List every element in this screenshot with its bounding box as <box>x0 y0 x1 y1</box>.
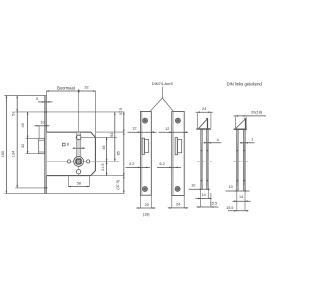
view1 dim 24 line <box>196 111 213 113</box>
ext line case right edge up <box>95 91 97 137</box>
svg-text:58: 58 <box>77 182 81 186</box>
plate2 dim 12 line <box>159 131 189 133</box>
dim 134-53 line <box>16 96 18 188</box>
ext line plate bottom long <box>4 192 124 194</box>
svg-text:DIN74-AmS: DIN74-AmS <box>152 81 174 86</box>
label square 8 <box>62 143 65 146</box>
svg-text:94: 94 <box>110 133 114 137</box>
view1 centerline <box>197 160 212 162</box>
svg-text:14: 14 <box>201 193 205 197</box>
ext line latch top <box>26 137 39 139</box>
svg-text:DIN links getekend: DIN links getekend <box>227 82 263 87</box>
ext line latch left up <box>38 126 40 139</box>
ext line latch bottom <box>26 153 45 155</box>
follower slot <box>76 132 80 157</box>
view1 dim 4 line <box>204 142 222 144</box>
plate2 top screw <box>175 118 180 123</box>
view1 top strike lip <box>196 128 211 130</box>
ext line case top right <box>96 131 125 133</box>
svg-text:12: 12 <box>165 127 169 131</box>
svg-text:49: 49 <box>21 123 25 127</box>
svg-text:24: 24 <box>176 203 180 207</box>
view2 dim 20 line <box>234 115 266 117</box>
dim 58 line <box>68 186 89 188</box>
svg-text:12: 12 <box>132 127 136 131</box>
ext line case bottom right <box>92 175 125 177</box>
plate2 latch bolt <box>178 140 182 153</box>
plate1 ext 20 right <box>150 195 152 208</box>
faceplate top screw line <box>44 111 47 113</box>
svg-text:10: 10 <box>191 183 195 187</box>
plate1 latch bolt <box>145 140 149 153</box>
plate2 left shade band <box>172 112 174 195</box>
svg-text:3.2: 3.2 <box>129 162 134 166</box>
svg-text:10: 10 <box>40 121 44 125</box>
top hole circle <box>77 135 81 139</box>
dim line Boormaat-32 <box>46 90 95 92</box>
view2 ext 20 left <box>234 117 236 129</box>
view1 ext 14 right <box>207 189 209 198</box>
plate2 ext 24 left <box>171 195 173 208</box>
leader to plate2 <box>162 98 173 111</box>
vertical centerline below follower <box>78 166 80 175</box>
lock case outline <box>47 132 96 176</box>
plate1 bottom screw <box>142 186 147 191</box>
plate2 latch slot <box>175 138 178 155</box>
view1 dim 10 line <box>189 188 210 190</box>
svg-text:53: 53 <box>11 111 15 115</box>
view1 dim 14 line <box>196 197 212 199</box>
ext line hole58 left <box>67 176 69 186</box>
plate1 dim 3.2 line <box>126 166 151 168</box>
view2 dim 1 line <box>240 142 255 144</box>
leader to plate1 <box>150 98 162 111</box>
view2 bolt strip dark mid <box>244 143 246 186</box>
wire centerline through follower <box>47 160 119 162</box>
svg-text:46: 46 <box>102 145 106 149</box>
plate1 left shade band <box>141 112 143 195</box>
dim 10 line <box>34 125 49 127</box>
plate2 ext 24 right <box>183 195 185 208</box>
svg-text:20: 20 <box>145 203 149 207</box>
view2 bolt strip <box>243 130 245 190</box>
plate1 dim 12 line <box>128 131 157 133</box>
view1 bolt strip <box>206 130 208 190</box>
ext line x46.4 <box>45 91 47 96</box>
view1 ext 15.5 left <box>200 198 202 207</box>
svg-text:32: 32 <box>21 144 25 148</box>
view1 latch bevel <box>199 119 208 129</box>
latch bolt side view <box>39 138 45 153</box>
svg-text:(37.5): (37.5) <box>116 179 120 190</box>
svg-text:Boormaat: Boormaat <box>57 85 76 90</box>
faceplate bottom screw line <box>44 187 47 189</box>
dim 37.5-85-37.5 chain line <box>123 112 125 193</box>
ext line top hole right <box>81 136 117 138</box>
bottom hole circle <box>76 170 80 174</box>
svg-text:160: 160 <box>1 151 5 157</box>
plate2 bottom screw <box>175 186 180 191</box>
dim 94 line <box>114 112 116 161</box>
view1 dim 15.5 line <box>197 206 219 208</box>
svg-text:3: 3 <box>36 97 38 101</box>
svg-text:4: 4 <box>217 138 219 142</box>
svg-text:10: 10 <box>228 185 232 189</box>
view1 latch front edge <box>207 119 209 129</box>
view2 ext 14 right <box>244 190 246 211</box>
plate1 latch slot <box>142 138 145 154</box>
svg-text:15.5: 15.5 <box>210 202 217 206</box>
view2 ext 14 left <box>236 190 238 211</box>
view2 latch tip flat <box>244 118 246 120</box>
plate2 dim 6.2 line <box>157 166 181 168</box>
view2 dim 14 line <box>233 200 251 202</box>
view2 latch bevel <box>236 119 246 128</box>
svg-text:134: 134 <box>11 151 15 157</box>
dim 49-32 line <box>27 112 29 154</box>
view2 centerline <box>233 160 248 162</box>
view1 plate strip dark mid <box>201 143 202 186</box>
ext line slot centre up <box>78 91 80 132</box>
left small hole <box>67 160 70 163</box>
ext line top screw long <box>15 111 124 113</box>
plate2 body <box>172 112 184 196</box>
svg-text:37.5: 37.5 <box>119 108 123 115</box>
svg-text:8: 8 <box>67 143 69 147</box>
faceplate edge-on strip <box>45 96 47 194</box>
svg-text:(18): (18) <box>143 213 150 217</box>
view2 plate strip <box>236 130 238 190</box>
plate1 top screw <box>143 118 148 123</box>
view1 ext 15.5 right <box>210 193 212 207</box>
leader stem <box>161 87 163 98</box>
svg-text:1: 1 <box>251 137 253 141</box>
view2 latch front edge <box>245 119 247 129</box>
plate2 dim 24 line <box>168 207 188 209</box>
plate1 dim 20 line <box>136 207 155 209</box>
top hole crosshair tick <box>75 136 82 138</box>
dim 160 line <box>5 96 7 194</box>
view1 plate strip <box>201 130 203 190</box>
ext line bottom screw <box>15 187 44 189</box>
dim 8 line <box>73 147 85 149</box>
view1 latch tip flat <box>206 117 208 119</box>
svg-text:15.5: 15.5 <box>226 206 233 210</box>
svg-text:14: 14 <box>239 195 243 199</box>
svg-text:85: 85 <box>117 151 121 155</box>
svg-text:20(18): 20(18) <box>251 110 263 114</box>
view1 ext 24 right <box>210 113 212 128</box>
ext line hole58 right <box>88 176 90 186</box>
view2 top strike lip <box>234 128 247 130</box>
view2 dim 10 line <box>226 190 250 192</box>
svg-text:32: 32 <box>84 86 88 90</box>
view1 ext 14 left <box>200 189 202 198</box>
right small hole <box>87 160 90 163</box>
svg-text:21.5: 21.5 <box>101 164 105 171</box>
view1 ext 24 left <box>196 113 198 128</box>
svg-text:24: 24 <box>202 107 206 111</box>
plate1 ext 20 left <box>139 195 141 208</box>
ext line plate top left <box>4 95 44 97</box>
view2 dim 15.5 line <box>228 210 248 212</box>
view2 plate strip dark mid <box>237 143 239 186</box>
follower square hole <box>76 160 80 164</box>
view1 bolt strip dark mid <box>207 143 209 186</box>
view2 ext 20 right <box>245 117 247 129</box>
svg-text:6.2: 6.2 <box>159 162 164 166</box>
follower inner circle <box>75 158 82 165</box>
dim 46-21.5 line <box>106 137 108 175</box>
dim 3 line <box>38 101 53 103</box>
follower outer circle <box>74 157 84 167</box>
plate1 body <box>140 112 151 196</box>
